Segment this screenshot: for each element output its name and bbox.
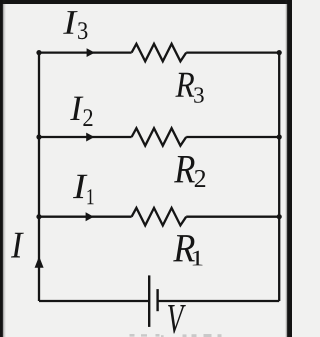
wire middle branch right segment: [186, 136, 279, 138]
label I total current: [11, 233, 24, 258]
arrow I2: [86, 133, 94, 142]
label R3 subscript 3: [194, 87, 203, 102]
wire bottom left to battery: [39, 300, 148, 302]
node mid-right: [277, 134, 282, 139]
label R1 letter R: [173, 235, 195, 261]
frame left bar: [0, 0, 6, 337]
node low-left: [36, 214, 41, 219]
label I1 subscript 1: [87, 189, 93, 204]
node low-right: [277, 214, 282, 219]
resistor R3: [132, 44, 187, 62]
arrow I up: [35, 256, 44, 268]
label I3 letter I: [63, 11, 77, 34]
label R2 letter R: [174, 156, 195, 182]
wire top branch right segment: [186, 51, 279, 53]
resistor R2: [132, 128, 187, 146]
node top-right: [277, 50, 282, 55]
frame right bar: [285, 0, 292, 337]
wire left vertical: [38, 53, 40, 301]
label I2 subscript 2: [83, 109, 92, 126]
wire right vertical: [278, 53, 280, 301]
label I1 letter I: [73, 175, 87, 198]
wire bottom battery to right: [158, 300, 280, 302]
label R3 letter R: [175, 73, 194, 97]
wire lower branch right segment: [186, 216, 279, 218]
battery V long plate: [148, 275, 150, 327]
wire lower branch left segment: [39, 216, 132, 218]
label R1 subscript 1: [193, 251, 203, 266]
label I3 subscript 3: [78, 22, 87, 39]
label R2 subscript 2: [195, 170, 205, 187]
node top-left: [36, 50, 41, 55]
frame top bar: [0, 0, 292, 4]
node mid-left: [36, 134, 41, 139]
wire top branch left segment: [39, 51, 132, 53]
label I2 letter I: [70, 97, 83, 120]
battery V short plate: [156, 289, 158, 311]
label V voltage: [168, 305, 186, 334]
wire middle branch left segment: [39, 136, 132, 138]
resistor R1: [132, 208, 187, 226]
arrow I1: [86, 212, 94, 221]
arrow I3: [87, 48, 95, 57]
